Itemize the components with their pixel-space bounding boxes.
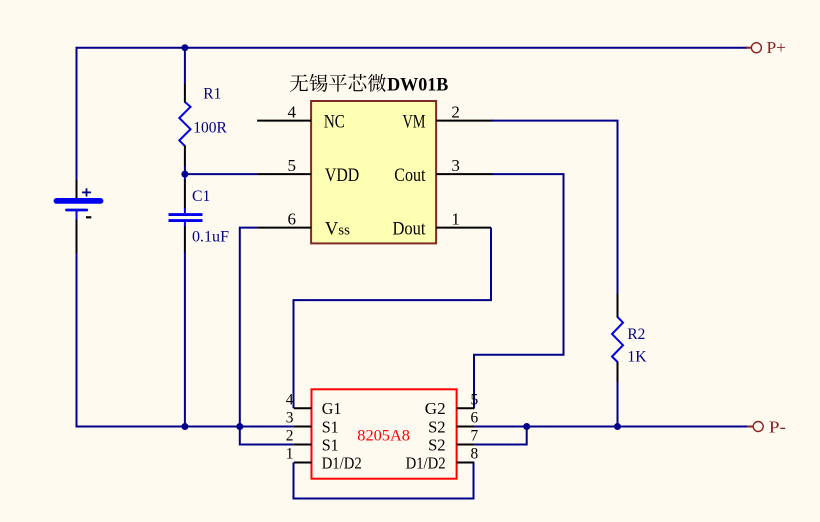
wire S2 pin7 to P- rail xyxy=(474,427,526,445)
port P+ lead xyxy=(746,47,752,49)
wire D1/D2 loop xyxy=(294,463,474,499)
svg-text:2: 2 xyxy=(451,102,460,121)
wire C1 to bottom rail xyxy=(184,252,186,427)
port P- lead xyxy=(747,426,753,428)
svg-text:3: 3 xyxy=(286,410,294,427)
svg-text:Dout: Dout xyxy=(393,219,427,239)
wire R2 to bottom rail xyxy=(617,382,619,427)
resistor R1 xyxy=(179,84,190,167)
svg-text:6: 6 xyxy=(288,209,297,228)
svg-text:C1: C1 xyxy=(192,188,210,205)
node R2 / P- rail junction xyxy=(614,423,621,430)
svg-text:0.1uF: 0.1uF xyxy=(192,228,229,245)
svg-text:D1/D2: D1/D2 xyxy=(322,453,362,472)
svg-text:P+: P+ xyxy=(767,38,787,57)
svg-text:4: 4 xyxy=(286,391,294,408)
transistor U2 8205A8 body xyxy=(312,389,457,478)
wire Cout net xyxy=(474,174,564,408)
pin U1.3 Cout stub xyxy=(436,173,493,175)
pin U2.5 stub xyxy=(457,407,475,409)
wire VDD node to C1 xyxy=(184,173,186,181)
svg-text:1: 1 xyxy=(286,446,294,463)
pin U2.8 stub xyxy=(457,462,475,464)
pin U2.2 stub xyxy=(294,444,312,446)
svg-text:2: 2 xyxy=(286,428,294,445)
svg-text:DW01B: DW01B xyxy=(387,74,448,95)
svg-text:5: 5 xyxy=(288,156,297,175)
svg-text:R2: R2 xyxy=(627,326,645,343)
capacitor C1 xyxy=(169,180,203,253)
svg-text:P-: P- xyxy=(769,417,786,436)
svg-text:S1: S1 xyxy=(322,435,339,454)
pin U1.2 VM stub xyxy=(436,120,493,122)
svg-text:Cout: Cout xyxy=(394,166,426,186)
pin U1.4 NC stub xyxy=(257,120,311,122)
wire top rail to R1 xyxy=(184,48,186,85)
svg-text:8205A8: 8205A8 xyxy=(357,427,410,444)
port P- circle xyxy=(753,422,763,432)
op-amp U1 DW01B body xyxy=(311,101,436,243)
wire P- rail xyxy=(474,426,747,428)
svg-text:G1: G1 xyxy=(322,399,342,418)
svg-text:S2: S2 xyxy=(428,435,446,454)
svg-text:G2: G2 xyxy=(425,399,446,418)
node Vss / bottom rail junction xyxy=(236,423,243,430)
pin U2.7 stub xyxy=(457,444,475,446)
wire top rail P+ xyxy=(77,47,748,49)
node top rail / R1 junction xyxy=(181,44,188,51)
node pin7 / P- rail junction xyxy=(523,423,530,430)
battery B1 xyxy=(57,180,101,253)
svg-text:4: 4 xyxy=(288,102,297,121)
svg-text:8: 8 xyxy=(471,446,479,463)
pin U2.6 stub xyxy=(457,426,475,428)
svg-text:7: 7 xyxy=(471,428,479,445)
wire battery bottom to rail xyxy=(76,252,78,427)
pin U2.4 stub xyxy=(294,407,312,409)
resistor R2 xyxy=(612,294,623,383)
pin U1.5 VDD stub xyxy=(257,173,311,175)
wire R1 to VDD node xyxy=(184,166,186,175)
svg-text:5: 5 xyxy=(471,391,479,408)
svg-text:3: 3 xyxy=(451,156,460,175)
svg-text:S1: S1 xyxy=(322,417,339,436)
wire left vertical battery branch xyxy=(76,47,78,187)
svg-text:NC: NC xyxy=(324,112,345,132)
node VDD junction xyxy=(181,171,188,178)
label U1 title 无锡平芯微 (outline glyphs) xyxy=(290,74,308,91)
svg-text:R1: R1 xyxy=(203,85,221,102)
svg-text:VM: VM xyxy=(403,112,426,132)
wire VM net xyxy=(492,121,618,295)
svg-text:D1/D2: D1/D2 xyxy=(406,453,446,472)
pin U2.1 stub xyxy=(294,462,312,464)
wire Dout net xyxy=(294,228,492,409)
svg-text:100R: 100R xyxy=(193,120,227,137)
pin U2.3 stub xyxy=(294,426,312,428)
port P+ circle xyxy=(751,43,761,53)
svg-text:S2: S2 xyxy=(428,417,446,436)
wire VDD net xyxy=(185,173,257,175)
svg-text:Vss: Vss xyxy=(325,219,350,239)
node C1 / bottom rail junction xyxy=(181,423,188,430)
wire bottom rail to pin3 xyxy=(76,426,294,428)
pin U1.1 Dout stub xyxy=(436,227,491,229)
svg-text:6: 6 xyxy=(471,410,479,427)
svg-text:1K: 1K xyxy=(627,349,647,366)
wire Vss net xyxy=(240,228,294,445)
svg-text:VDD: VDD xyxy=(325,166,359,186)
svg-text:1: 1 xyxy=(451,209,460,228)
pin U1.6 Vss stub xyxy=(257,227,311,229)
